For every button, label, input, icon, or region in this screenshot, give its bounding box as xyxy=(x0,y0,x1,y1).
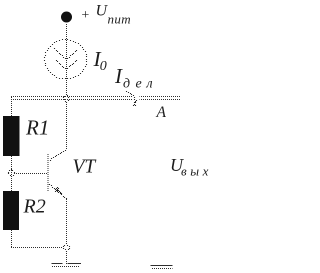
horizontal wire Idel row1 xyxy=(11,96,181,98)
emitter diagonal xyxy=(49,184,67,199)
svg-text:вых: вых xyxy=(181,164,212,179)
right ground mark dotted xyxy=(152,268,173,270)
wire node to ground xyxy=(66,251,68,264)
svg-text:дел: дел xyxy=(123,77,158,92)
arrowhead xyxy=(133,100,137,106)
bottom wire to emitter node xyxy=(11,247,63,249)
svg-text:пит: пит xyxy=(108,12,132,27)
transistor VT base bar xyxy=(47,154,49,191)
resistor R1 body xyxy=(3,116,20,156)
collector wire xyxy=(66,102,68,150)
svg-text:R2: R2 xyxy=(23,196,46,218)
svg-text:A: A xyxy=(156,104,167,121)
junction diamond base xyxy=(8,169,15,177)
collector diagonal xyxy=(50,150,66,161)
node diamond top xyxy=(63,94,70,103)
emitter wire down xyxy=(66,199,68,244)
emitter arrowhead xyxy=(55,187,62,194)
wire R2 down xyxy=(11,230,13,248)
svg-text:R1: R1 xyxy=(25,116,49,140)
wire R1 to R2 xyxy=(11,156,13,191)
current direction arrow (arc) xyxy=(126,91,136,102)
terminal +Upit xyxy=(61,12,72,23)
horizontal wire Idel row2 xyxy=(11,99,181,101)
right ground mark bar xyxy=(151,265,173,267)
svg-text:0: 0 xyxy=(100,59,107,74)
base wire xyxy=(14,173,48,175)
resistor R2 body xyxy=(3,191,19,230)
ground hatch dotted xyxy=(52,266,79,268)
junction diamond bottom xyxy=(63,243,70,252)
svg-text:I: I xyxy=(114,64,123,88)
wire terminal to node xyxy=(66,24,68,95)
current source I0 circle xyxy=(44,39,87,79)
wire gap at arrow crossing xyxy=(133,96,140,101)
left vertical wire to R1 xyxy=(11,97,13,116)
current source chevron 1 xyxy=(54,48,77,59)
svg-text:+: + xyxy=(81,8,90,23)
svg-text:VT: VT xyxy=(73,157,97,178)
ground bar xyxy=(52,263,82,265)
current source chevron 2 xyxy=(56,60,77,69)
